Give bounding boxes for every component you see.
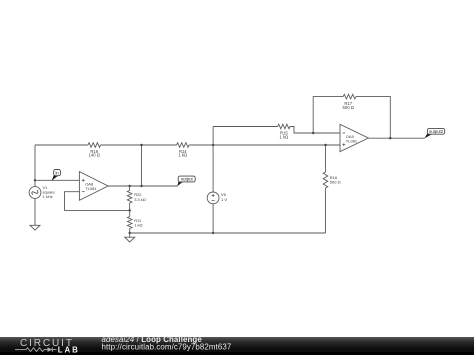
resistor R19 140 Ohm (88, 143, 101, 158)
wire OA8 output (108, 185, 178, 187)
op-amp OA9 TL081 (340, 124, 368, 151)
resistor R17 500 Ohm (343, 94, 356, 110)
svg-text:LAB: LAB (58, 345, 80, 354)
svg-text:1 kHz: 1 kHz (43, 194, 53, 199)
wire OA9 feedback loop left/top (313, 97, 343, 133)
footer title line (102, 335, 203, 344)
svg-text:500 Ω: 500 Ω (330, 179, 341, 184)
wire V1 top lead (34, 145, 36, 187)
logo text LAB (58, 345, 80, 354)
wire top rail left segment (V1 top to R19) (35, 144, 88, 146)
wire OA9 feedback loop top/right (356, 97, 390, 139)
svg-text:output: output (181, 177, 194, 182)
wire to OA8 + input (35, 179, 79, 181)
voltage source V5 1 V (207, 192, 227, 204)
resistor R15 1 kOhm (278, 124, 290, 139)
CircuitLab logo text CIRCUIT (20, 338, 74, 349)
wire feedback riser to top rail (141, 145, 143, 186)
node junction - input/feedback (312, 132, 314, 134)
resistor R14 1 kOhm (177, 143, 189, 158)
resistor R11 1 kOhm (127, 210, 142, 233)
svg-text:1 kΩ: 1 kΩ (280, 135, 289, 140)
svg-text:TL081: TL081 (346, 139, 358, 144)
ground (bottom rail) (125, 233, 135, 242)
svg-text:3.3 kΩ: 3.3 kΩ (134, 197, 146, 202)
svg-text:1 kΩ: 1 kΩ (134, 222, 142, 227)
svg-text:500 Ω: 500 Ω (343, 105, 354, 110)
node junction top rail/node B riser (212, 144, 214, 146)
node junction divider tap (129, 209, 131, 211)
svg-text:http://circuitlab.com/c79y7b82: http://circuitlab.com/c79y7b82mt637 (102, 343, 232, 352)
wire node B to R15 (213, 126, 278, 128)
node junction V5/bottom rail (212, 232, 214, 234)
svg-text:output2: output2 (429, 129, 444, 134)
node junction top rail/R16 (324, 144, 326, 146)
flag node "output2" (424, 128, 444, 138)
op-amp OA8 TL081 (79, 172, 108, 201)
wire OA9 output (368, 137, 424, 139)
resistor R22 3.3 kOhm (127, 186, 146, 210)
svg-text:1 kΩ: 1 kΩ (178, 153, 187, 158)
wire R15 to OA9 - input (with jog) (290, 127, 340, 134)
node junction R11/bottom rail (129, 232, 131, 234)
svg-text:TL081: TL081 (85, 186, 97, 191)
ground (under V1) (30, 225, 40, 230)
flag node "in" (52, 170, 61, 181)
logo wire with resistor and diode (15, 347, 57, 352)
svg-text:1 V: 1 V (221, 197, 227, 202)
wire V1 bottom lead (34, 198, 36, 225)
wire node B riser (upper) (212, 127, 214, 192)
flag node "output" (177, 176, 195, 186)
svg-text:140 Ω: 140 Ω (89, 153, 100, 158)
voltage source V1 square 1 kHz (29, 185, 55, 199)
wire top rail right segment (R14 to OA9 + input) (189, 144, 340, 146)
node junction top rail/feedback riser (140, 144, 142, 146)
wire V5 bottom lead (212, 204, 214, 233)
footer url line (102, 343, 232, 352)
node junction output2/feedback (389, 137, 391, 139)
wire OA8 feedback (- input to divider tap) (65, 192, 130, 211)
resistor R16 500 Ohm (323, 145, 340, 233)
node junction V1/in wire (34, 179, 36, 181)
node junction output/feedback riser (140, 185, 142, 187)
wire top rail middle segment (R19 to R14) (101, 144, 177, 146)
wire bottom rail (130, 232, 326, 234)
footer bar (0, 337, 474, 355)
node junction output/R22 (128, 185, 130, 187)
